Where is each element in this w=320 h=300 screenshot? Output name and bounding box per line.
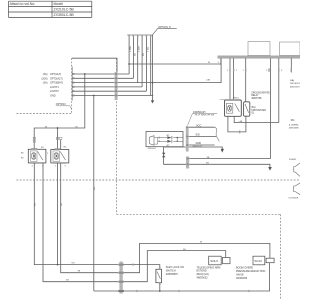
svg-text:RELAY: RELAY — [251, 94, 259, 97]
svg-text:ZX350LC-5B: ZX350LC-5B — [54, 13, 75, 17]
svg-text:+4B: +4B — [238, 121, 242, 123]
svg-text:1.25L: 1.25L — [147, 46, 149, 52]
svg-text:EVENT: EVENT — [289, 159, 297, 161]
svg-text:1.25R: 1.25R — [139, 46, 141, 52]
svg-text:VCC: VCC — [196, 124, 201, 127]
svg-text:Model: Model — [54, 2, 64, 6]
svg-text:SOLV: SOLV — [254, 259, 262, 263]
svg-text:4WD5456: 4WD5456 — [236, 277, 248, 280]
svg-text:GND: GND — [50, 95, 56, 98]
svg-text:SIG: SIG — [196, 134, 200, 137]
svg-text:OPT2(ALT): OPT2(ALT) — [50, 77, 63, 80]
svg-text:(5A): (5A) — [251, 106, 256, 109]
svg-text:1.25B: 1.25B — [130, 46, 132, 52]
svg-text:4WD9022: 4WD9022 — [197, 277, 209, 280]
svg-text:CROSSOVER: CROSSOVER — [290, 83, 300, 85]
svg-text:3G: 3G — [143, 53, 145, 56]
svg-text:W1: W1 — [167, 135, 170, 137]
svg-text:ZX210LC-5B: ZX210LC-5B — [54, 8, 75, 12]
svg-text:4WD5768: 4WD5768 — [251, 98, 262, 100]
svg-text:LIGHT1: LIGHT1 — [50, 86, 59, 89]
svg-text:W2: W2 — [167, 145, 170, 147]
svg-text:4WD65BH: 4WD65BH — [166, 273, 178, 276]
svg-text:L4B: L4B — [206, 80, 210, 82]
svg-text:(3A): (3A) — [43, 82, 48, 85]
svg-text:OPTION_P: OPTION_P — [158, 26, 171, 29]
svg-text:4WD1: 4WD1 — [233, 97, 240, 99]
svg-text:(3A): (3A) — [43, 73, 48, 76]
svg-text:4WD2075: 4WD2075 — [290, 87, 300, 89]
svg-text:(5A): (5A) — [290, 79, 294, 82]
svg-text:(LOWER): (LOWER) — [289, 124, 299, 126]
svg-text:CROSSOVER RE: CROSSOVER RE — [251, 93, 270, 95]
svg-text:PILOT SHUTOFF SW: PILOT SHUTOFF SW — [195, 114, 215, 116]
svg-text:4WD5696: 4WD5696 — [289, 127, 300, 129]
svg-text:Attach to vol.No.: Attach to vol.No. — [10, 2, 36, 6]
svg-text:4WD5012: 4WD5012 — [192, 146, 203, 148]
svg-text:OUTSIDE: OUTSIDE — [289, 198, 299, 200]
svg-text:(20A): (20A) — [41, 77, 47, 80]
svg-text:SOLV: SOLV — [210, 259, 218, 263]
svg-text:LIGHT2: LIGHT2 — [50, 90, 59, 93]
svg-text:OPT(ALT): OPT(ALT) — [50, 73, 61, 76]
svg-text:GND: GND — [196, 142, 202, 145]
svg-text:4WD501: 4WD501 — [148, 148, 157, 150]
svg-text:OPT3(BAT): OPT3(BAT) — [50, 82, 63, 85]
svg-text:CROSSOVER: CROSSOVER — [251, 110, 266, 112]
svg-text:RC: RC — [291, 118, 295, 122]
